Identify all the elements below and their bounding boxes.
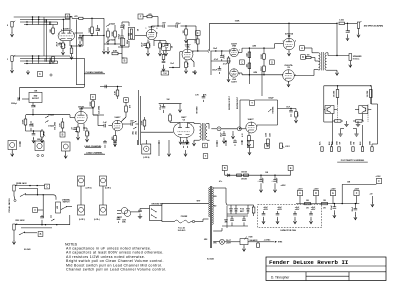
wire down2: [362, 114, 364, 122]
svg-text:K: K: [39, 72, 41, 76]
component mid: [50, 215, 52, 218]
potentiometer bass box: [120, 38, 125, 45]
svg-text:VOLUME: VOLUME: [55, 121, 57, 130]
switch S2: [106, 41, 109, 43]
node B: [122, 58, 127, 63]
wire: [70, 45, 83, 47]
wire stub: [137, 140, 139, 145]
svg-text:470: 470: [74, 15, 77, 18]
switch mid boost: [29, 92, 42, 102]
capacitor NFB: [347, 23, 349, 31]
capacitor filter2: [242, 218, 246, 220]
title block: [266, 257, 386, 281]
switch pedal: [22, 193, 26, 195]
svg-text:4.7x: 4.7x: [219, 180, 222, 183]
cathode V3A: [185, 60, 187, 62]
wire dist rail: [296, 203, 359, 205]
capacitor plate chain: [104, 85, 106, 89]
svg-text:12AX7: 12AX7: [63, 27, 70, 30]
resistor fsr1: [335, 120, 342, 122]
resistor 4.7k reverb: [295, 112, 298, 118]
resistor R3 1.5K: [62, 43, 65, 49]
speaker jack J3: [349, 54, 352, 61]
svg-text:1.5K: 1.5K: [149, 43, 151, 48]
capacitor bright C1: [44, 19, 46, 23]
tube V3B 12AX7: [112, 120, 123, 131]
wire reverb right: [278, 108, 297, 110]
svg-text:(LOR 1): (LOR 1): [105, 188, 111, 190]
resistor 10K node: [197, 39, 200, 44]
svg-text:A: A: [301, 46, 303, 50]
svg-text:100pf: 100pf: [119, 34, 121, 40]
wire B+ vert2: [261, 71, 263, 96]
svg-text:60Hz: 60Hz: [122, 222, 126, 224]
svg-text:10pF: 10pF: [221, 132, 223, 137]
pedal jack 1: [13, 185, 15, 191]
cathode V2B: [77, 124, 79, 128]
resistor dist1: [305, 202, 311, 204]
wire plate: [151, 26, 153, 29]
svg-text:B: B: [224, 166, 226, 170]
svg-text:20uF: 20uF: [352, 206, 354, 211]
connector circle: [192, 220, 194, 222]
node F: [65, 14, 70, 19]
svg-text:GROUND SW: GROUND SW: [151, 204, 163, 206]
svg-text:3300pf: 3300pf: [11, 103, 17, 105]
resistor R26: [169, 115, 172, 121]
svg-text:B: B: [302, 55, 304, 59]
cathode V3B: [115, 131, 117, 136]
resistor R7: [107, 31, 110, 37]
svg-text:170pF: 170pF: [160, 104, 162, 111]
resistor R12 1M: [185, 29, 188, 35]
resistor bias2: [248, 63, 251, 69]
svg-text:10uF: 10uF: [142, 42, 144, 47]
switch pedal2: [21, 232, 25, 234]
potentiometer pedal: [56, 202, 61, 213]
wire: [122, 21, 129, 23]
wire plate out: [75, 32, 84, 34]
tube V2A 12AX7: [146, 29, 156, 39]
svg-text:1,500: 1,500: [339, 20, 344, 22]
capacitor C19: [103, 124, 105, 128]
svg-text:SLO-BLO: SLO-BLO: [178, 230, 186, 232]
box bottom left: [161, 71, 169, 75]
wire right branch: [371, 103, 377, 105]
switch box trem: [161, 44, 170, 51]
ground stub: [168, 140, 170, 152]
switch arrows2: [133, 121, 136, 123]
resistor R6 100K: [91, 27, 94, 34]
svg-text:X: X: [266, 144, 268, 148]
wire: [25, 127, 27, 131]
wire V3A grid loop: [169, 67, 180, 69]
svg-text:1.5K: 1.5K: [187, 62, 189, 67]
fuse: [184, 220, 191, 223]
wire stub 3: [241, 140, 243, 145]
svg-text:1.5K: 1.5K: [64, 43, 66, 48]
wire pots: [80, 186, 82, 205]
wire plate V8: [288, 23, 290, 38]
wire down1: [332, 114, 334, 145]
tube V4 12AT7 reverb: [173, 122, 194, 138]
resistor fs cap1: [337, 85, 338, 86]
svg-text:1M: 1M: [183, 30, 185, 33]
potentiometer cluster 2: [62, 142, 71, 151]
svg-text:GRN: GRN: [213, 196, 216, 198]
wire stubs right: [216, 140, 218, 147]
ground ext jack: [358, 28, 360, 33]
NFB vertical: [336, 23, 338, 55]
svg-text:2/16A4: 2/16A4: [109, 23, 115, 26]
svg-text:100uF: 100uF: [212, 70, 217, 72]
wire stub lv: [19, 141, 21, 147]
wire fs top: [324, 85, 372, 87]
ground hum: [243, 245, 245, 248]
tube V6A 12AT7: [230, 69, 238, 77]
capacitor C4 1500pf: [78, 37, 82, 39]
capacitor 170pF: [162, 106, 166, 108]
wire V2B plate: [80, 108, 82, 111]
resistor R20 100K: [24, 119, 27, 125]
resistor R8 100K: [114, 31, 117, 37]
resistor dist2: [322, 202, 328, 204]
wire heater bus: [213, 241, 220, 243]
chassis ground c2: [357, 121, 359, 124]
svg-text:+6.3VAC: +6.3VAC: [264, 239, 272, 242]
capacitor pair: [182, 142, 186, 144]
resistor 220K lower: [263, 66, 266, 71]
svg-text:6V6GTA: 6V6GTA: [285, 64, 293, 67]
mid pots row A: [78, 176, 85, 186]
wire V3B out: [123, 123, 131, 125]
ground: [288, 81, 290, 83]
wire: [26, 114, 45, 116]
svg-text:D: D: [271, 60, 273, 64]
ground: [27, 70, 29, 74]
svg-text:+418V: +418V: [314, 187, 320, 190]
svg-text:.02M: .02M: [253, 72, 257, 74]
svg-text:RVRB JACK: RVRB JACK: [16, 182, 27, 185]
resistor 220K upper: [263, 54, 266, 59]
wire to V2B: [45, 114, 70, 116]
svg-text:REVERB INPUT: REVERB INPUT: [237, 97, 239, 109]
svg-text:100K: 100K: [112, 31, 114, 36]
node X: [33, 208, 38, 213]
RCA jack reverb send: [217, 127, 221, 131]
svg-text:GRN: GRN: [213, 243, 216, 245]
svg-text:LOR 1: LOR 1: [285, 146, 290, 148]
svg-text:100uF: 100uF: [263, 177, 265, 184]
tube V3A 12AT7: [182, 49, 193, 60]
resistor under switch: [162, 55, 165, 60]
svg-text:LEAD CHANNEL: LEAD CHANNEL: [86, 151, 103, 154]
resistor bias1: [248, 52, 251, 58]
svg-text:100K: 100K: [235, 21, 240, 23]
capacitor under switch: [162, 60, 166, 62]
chassis ground c4: [356, 129, 358, 134]
potentiometer treble: [128, 28, 135, 40]
svg-text:12AT7: 12AT7: [181, 116, 187, 119]
tube V6B 12AT7: [230, 48, 239, 57]
wire grid: [135, 35, 146, 37]
ground switch box: [150, 206, 162, 221]
tube V9 6V6GTA: [283, 70, 295, 82]
wire center vertical: [248, 48, 250, 84]
switch channel: [63, 206, 67, 208]
AC plug: [121, 208, 127, 214]
wire plate V3A: [195, 26, 197, 40]
tube V2B 12AX7: [75, 111, 87, 123]
capacitor C8 .047: [162, 24, 164, 28]
opto coupler 2: [359, 106, 368, 114]
wire bundle 1: [14, 55, 70, 57]
wire opto connections: [324, 109, 325, 111]
svg-text:(LOR +): (LOR +): [94, 219, 100, 221]
svg-text:2/16A4: 2/16A4: [48, 125, 54, 128]
capacitor C9: [164, 43, 168, 45]
ground secondary: [336, 70, 338, 71]
capacitor rail2: [274, 175, 276, 179]
svg-text:CAPACITOR CAN: CAPACITOR CAN: [280, 229, 296, 232]
svg-text:REVERB OUTPUT: REVERB OUTPUT: [229, 96, 231, 110]
capacitor C20: [130, 122, 132, 126]
node box X2: [265, 144, 270, 149]
node D: [270, 60, 275, 65]
wire stub 2: [158, 140, 160, 156]
svg-text:+420V: +420V: [281, 184, 287, 187]
wire reverb top: [159, 103, 182, 105]
svg-text:B: B: [40, 232, 42, 236]
svg-text:B: B: [125, 98, 127, 102]
svg-text:E: E: [290, 166, 292, 170]
boxed potentiometer LOR 4: [142, 144, 151, 154]
transformer T2 output: [319, 53, 320, 56]
wire plate V3B: [121, 117, 126, 122]
wire grid PI: [192, 50, 208, 52]
wire: [25, 194, 53, 196]
wire reverb grid: [211, 128, 217, 130]
svg-text:100K: 100K: [89, 27, 91, 32]
wire long verticals to lead channel: [75, 20, 77, 85]
wire HT bottom: [213, 230, 222, 232]
cathode V5: [248, 133, 250, 136]
svg-text:10K CNB: 10K CNB: [367, 90, 369, 97]
svg-text:D: D: [315, 191, 317, 195]
wire plate V9: [294, 75, 314, 77]
wire left low: [324, 121, 333, 123]
diode D3: [247, 209, 250, 212]
wire out: [92, 107, 93, 108]
wire to box: [140, 208, 145, 210]
svg-text:1: 1: [146, 28, 147, 30]
svg-text:8 Ohms: 8 Ohms: [353, 58, 360, 60]
svg-text:12uF: 12uF: [170, 63, 174, 65]
svg-text:2.5K: 2.5K: [223, 54, 225, 59]
svg-text:+230V: +230V: [376, 176, 382, 178]
svg-text:25uF: 25uF: [57, 41, 59, 46]
svg-text:+240V: +240V: [331, 187, 337, 190]
resistor fsr2: [356, 120, 363, 122]
svg-text:3.3K: 3.3K: [115, 90, 117, 95]
diode D1: [230, 209, 233, 212]
diode D4: [225, 220, 228, 223]
wire bundle verticals 1: [32, 56, 34, 64]
wire rect: [227, 204, 248, 206]
svg-text:REVERB: REVERB: [196, 106, 198, 114]
svg-text:100uF: 100uF: [277, 177, 279, 184]
pedal jack 2: [13, 224, 15, 230]
wire top lead channel: [20, 86, 84, 88]
wire fsj: [342, 183, 376, 185]
svg-text:SJ-0543: SJ-0543: [24, 248, 30, 251]
svg-text:(LOR 4): (LOR 4): [143, 156, 150, 159]
capacitor mid: [40, 216, 44, 218]
resistor R24: [143, 120, 146, 126]
wire plate chain: [100, 86, 122, 88]
terminal: [50, 74, 52, 76]
resistor R2 68K: [52, 57, 55, 63]
pilot light: [220, 239, 225, 244]
svg-text:12AT7: 12AT7: [231, 80, 237, 83]
wire PI out upper: [238, 51, 242, 53]
diode D2: [235, 209, 238, 212]
svg-text:HTRS: HTRS: [278, 242, 282, 244]
svg-text:C: C: [46, 185, 48, 189]
wire plug: [131, 211, 140, 213]
svg-text:220K: 220K: [261, 54, 263, 59]
wire to reverb transformer: [193, 123, 195, 124]
node C: [240, 60, 245, 65]
svg-text:+417V: +417V: [298, 187, 304, 190]
svg-text:2W 2W: 2W 2W: [241, 179, 247, 181]
svg-text:X: X: [34, 208, 36, 212]
svg-text:SJ-0543: SJ-0543: [207, 258, 214, 261]
wire PI lower out: [238, 72, 242, 74]
wire: [88, 35, 104, 37]
reverb out wires: [207, 123, 209, 125]
wire plates dual: [179, 123, 181, 128]
capacitor cluster b: [113, 140, 117, 142]
capacitor C5 .047: [96, 28, 100, 30]
svg-text:12AX7: 12AX7: [247, 118, 254, 121]
wire heater out: [248, 241, 262, 243]
tube V8 6V6GTA: [283, 38, 295, 50]
ground: [288, 50, 290, 52]
potentiometer lead volume: [8, 141, 17, 150]
wire jack link verticals: [43, 17, 45, 56]
wire: [103, 18, 105, 44]
ground: [13, 230, 15, 241]
node C3: [297, 190, 302, 195]
svg-text:1500pf: 1500pf: [82, 35, 84, 42]
capacitor can dashed box: [258, 205, 322, 228]
svg-text:10K: 10K: [195, 39, 197, 43]
node C2: [45, 184, 50, 189]
resistor R5b 100K cathode2: [70, 48, 73, 54]
wire curve: [53, 195, 56, 200]
wire bundle 2: [14, 16, 70, 18]
svg-text:.02M: .02M: [252, 45, 256, 47]
wire: [154, 40, 166, 42]
wire rail: [224, 171, 226, 176]
wire: [37, 188, 39, 194]
svg-text:RECT: RECT: [240, 211, 244, 213]
wire: [24, 232, 37, 234]
svg-text:K: K: [204, 144, 206, 148]
svg-text:100: 100: [307, 54, 310, 56]
svg-text:4.7K: 4.7K: [296, 112, 299, 117]
tube V5 12AX7: [246, 122, 257, 133]
node F3: [91, 95, 96, 100]
node boxed: [196, 31, 201, 36]
svg-text:V6B: V6B: [232, 46, 237, 48]
capacitor 2.5k: [220, 55, 224, 57]
capacitor 10pF: [222, 133, 226, 135]
svg-text:250pf: 250pf: [124, 24, 126, 30]
cathode network V2A: [147, 40, 149, 44]
wire reverb top rail: [240, 99, 250, 101]
ground: [163, 67, 165, 71]
svg-text:68K: 68K: [50, 28, 52, 32]
wire jog V2B out: [93, 114, 98, 116]
ground: [107, 47, 109, 50]
capacitor C2: [44, 58, 46, 62]
ground speaker: [349, 61, 351, 64]
capacitor C18: [32, 133, 36, 135]
svg-text:470pf: 470pf: [176, 22, 181, 25]
mid comp right: [117, 216, 122, 218]
capacitor C17 .022: [29, 124, 33, 126]
svg-text:100K: 100K: [142, 120, 144, 125]
capacitor rail1: [260, 175, 262, 179]
svg-text:POWER: POWER: [181, 216, 188, 218]
node B3: [124, 98, 129, 103]
svg-text:Fender DeLuxe Reverb II: Fender DeLuxe Reverb II: [269, 259, 349, 266]
ground 9v: [371, 196, 373, 203]
wire bass out: [118, 46, 129, 48]
svg-text:B: B: [124, 59, 126, 63]
svg-text:100K: 100K: [90, 101, 92, 106]
ground AC comb: [138, 216, 142, 218]
wire: [104, 43, 120, 45]
resistor R21 10K: [61, 122, 64, 128]
wire bundle verticals: [32, 17, 34, 25]
switch S1 bright: [106, 25, 109, 27]
svg-text:10K: 10K: [60, 123, 62, 127]
node B4: [38, 232, 43, 237]
resistor R1 68K: [52, 28, 55, 34]
cathode dual: [180, 138, 182, 141]
wire up to pots: [69, 215, 71, 225]
terminal circle: [14, 199, 16, 201]
chassis ground c3: [340, 129, 342, 134]
svg-text:MID: MID: [43, 131, 45, 135]
wire grid V8: [274, 44, 276, 49]
capacitor row: [233, 140, 237, 142]
svg-text:10K: 10K: [246, 52, 248, 56]
wire: [15, 224, 70, 226]
svg-text:10K CNB: 10K CNB: [334, 90, 336, 97]
svg-text:12AT7: 12AT7: [184, 43, 191, 46]
node B5: [222, 166, 227, 171]
capacitor dist1: [333, 204, 335, 207]
wire filters: [227, 215, 248, 217]
svg-text:220K: 220K: [261, 66, 263, 71]
svg-text:+245V: +245V: [354, 187, 360, 190]
node E2: [330, 190, 335, 195]
svg-text:150 150: 150 150: [241, 172, 247, 174]
